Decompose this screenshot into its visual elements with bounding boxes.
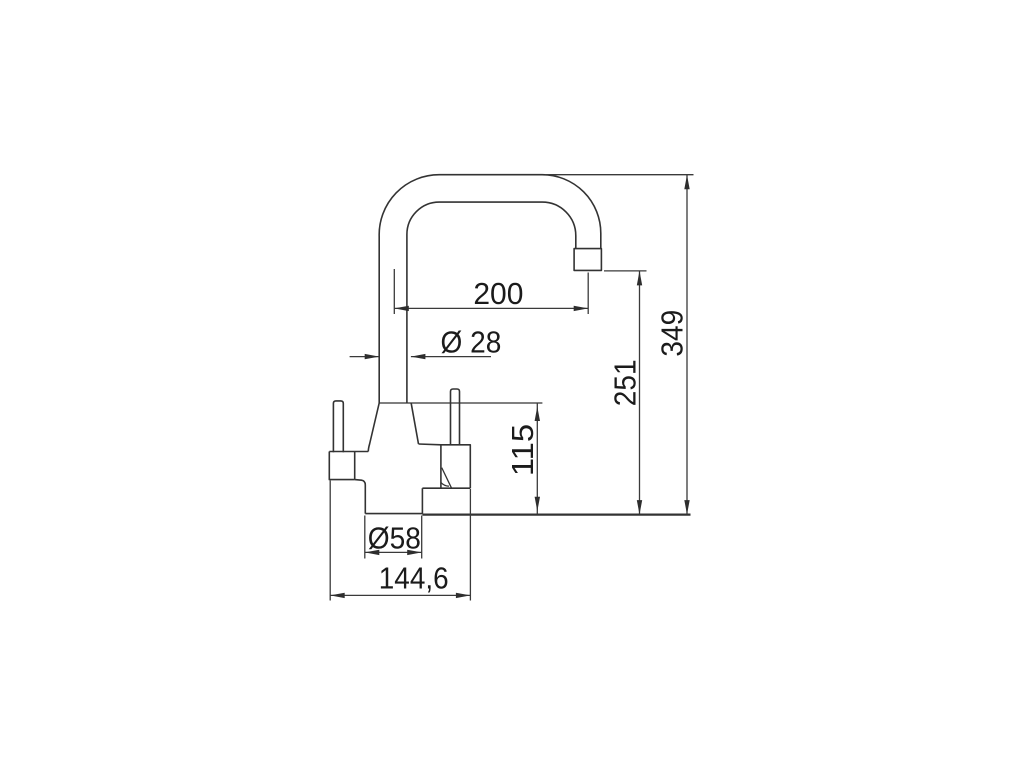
dim 200 left extension line (pipe centerline) — [393, 269, 395, 314]
dim 115 line — [536, 403, 538, 514]
body top edge + 115 extension line — [379, 402, 542, 404]
dim 144,6 right extension line — [469, 489, 471, 601]
dim 251 line — [639, 271, 641, 515]
body trapezoid left slant — [368, 403, 379, 452]
right handle block — [441, 445, 470, 488]
svg-text:349: 349 — [655, 310, 690, 357]
dim d58 right extension line — [421, 516, 423, 559]
dim 251 top extension line — [604, 270, 647, 272]
svg-text:Ø 28: Ø 28 — [441, 325, 502, 360]
dim d58 line — [365, 551, 422, 553]
dim 349 line — [686, 175, 688, 515]
dim 349 top extension line — [545, 174, 694, 176]
svg-text:Ø58: Ø58 — [368, 521, 421, 556]
arrowhead 251 bottom — [637, 500, 642, 514]
svg-text:144,6: 144,6 — [379, 561, 449, 596]
arrowhead 144,6 left — [330, 593, 345, 598]
dim d28 left leader — [350, 356, 380, 358]
right handle wedge arc — [441, 483, 449, 487]
dim d28 right leader — [411, 356, 491, 358]
arrowhead 115 top — [535, 407, 540, 422]
right block ledge to trapezoid — [419, 443, 441, 446]
spout tip outlet — [574, 249, 601, 271]
dim 144,6 line — [330, 594, 470, 596]
svg-text:200: 200 — [473, 276, 523, 311]
faucet spout outer tube — [379, 175, 601, 403]
body trapezoid right slant — [411, 403, 418, 444]
svg-text:115: 115 — [505, 424, 540, 476]
arrowhead 200 left — [394, 306, 409, 311]
left handle block — [329, 452, 354, 480]
left block to base step — [355, 480, 366, 514]
dim d58 left extension line — [364, 516, 366, 559]
dim 200 right extension line (spout centerline) — [587, 273, 589, 315]
datum baseline (thick) — [422, 513, 690, 515]
right lower ledge / right block bottom — [422, 487, 470, 489]
left lever stick — [333, 401, 343, 452]
dim 200 line — [394, 307, 588, 309]
base bottom — [365, 513, 422, 515]
arrowhead d58 left — [365, 550, 380, 555]
arrowhead 115 bottom — [535, 497, 540, 512]
arrowhead d28 right — [411, 354, 426, 359]
arrowhead 349 bottom — [684, 500, 689, 514]
right handle wedge diagonal — [442, 468, 452, 488]
right lever stick — [451, 389, 460, 445]
arrowhead 251 top — [637, 271, 642, 286]
arrowhead d28 left — [365, 354, 380, 359]
arrowhead 144,6 right — [456, 593, 471, 598]
arrowhead 200 right — [574, 306, 589, 311]
arrowhead d58 right — [407, 550, 422, 555]
dim 144,6 left extension line — [329, 481, 331, 601]
svg-text:251: 251 — [608, 359, 643, 406]
base right edge — [421, 488, 423, 513]
arrowhead 349 top — [684, 175, 689, 190]
faucet spout inner tube — [407, 202, 576, 403]
body left ledge — [329, 451, 368, 453]
